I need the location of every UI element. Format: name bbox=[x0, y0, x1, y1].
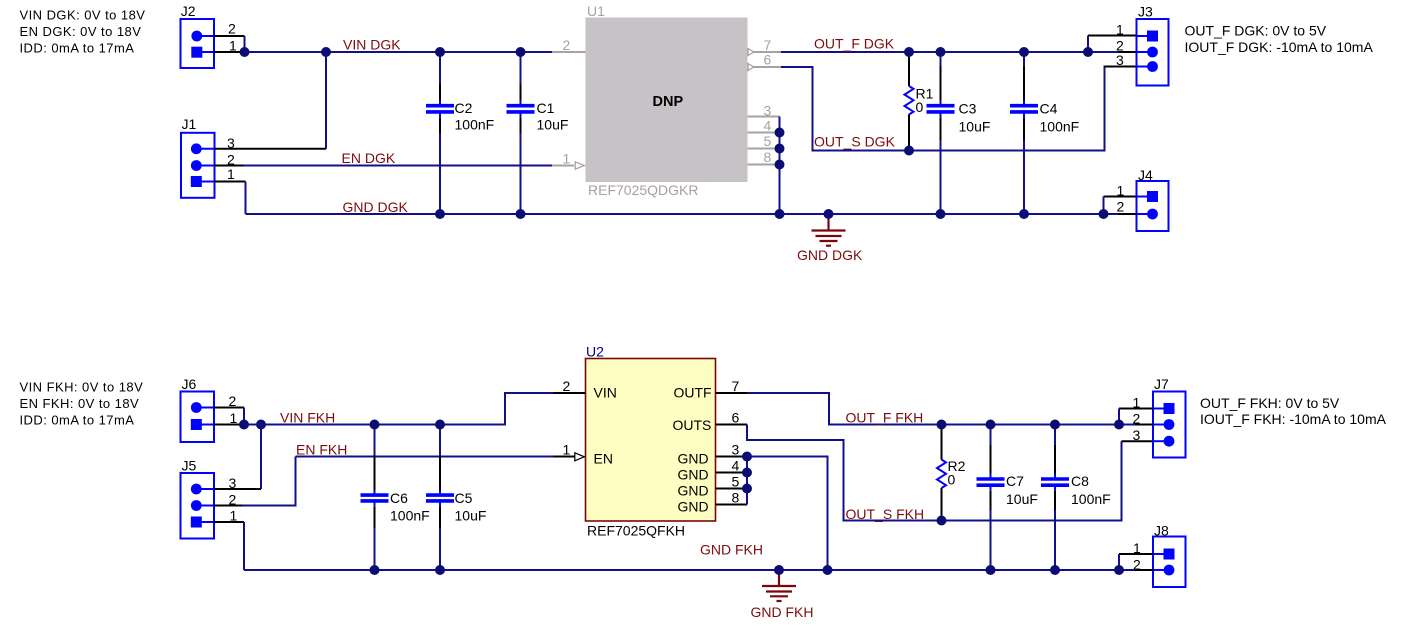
junction J8 pin1 on GND bbox=[1114, 565, 1124, 575]
svg-text:J1: J1 bbox=[182, 116, 197, 132]
svg-text:GND: GND bbox=[678, 467, 709, 483]
svg-text:C2: C2 bbox=[455, 100, 473, 116]
U2 pin 3 stub (GND) bbox=[716, 456, 748, 458]
capacitor C7 bbox=[977, 425, 1005, 571]
svg-text:VIN DGK: VIN DGK bbox=[343, 37, 401, 53]
annotation: VIN DGK ratings text bbox=[20, 7, 146, 55]
svg-text:EN DGK: 0V to 18V: EN DGK: 0V to 18V bbox=[20, 24, 142, 39]
wire OUTF to OUT_F FKH net bbox=[747, 393, 1153, 425]
junction U2 pin3 bbox=[742, 452, 752, 462]
svg-text:OUT_S DGK: OUT_S DGK bbox=[814, 134, 896, 150]
junction C7 top on OUT_F bbox=[986, 420, 996, 430]
svg-text:4: 4 bbox=[764, 118, 772, 134]
wire U2 gnd pins vertical bbox=[746, 457, 748, 505]
wire J5 pin2 to EN net bbox=[214, 505, 242, 507]
junction C6 bottom on GND bbox=[370, 565, 380, 575]
value label C6 bbox=[390, 490, 430, 524]
op-amp U2 REF7025QFKH (yellow body) bbox=[586, 343, 716, 538]
wire EN FKH net bbox=[296, 456, 554, 458]
value label C7 bbox=[1006, 473, 1038, 507]
svg-text:C3: C3 bbox=[959, 101, 977, 117]
junction C8 top on OUT_F bbox=[1050, 420, 1060, 430]
svg-text:6: 6 bbox=[732, 410, 740, 426]
U1 pin 5 stub bbox=[748, 148, 780, 150]
value label C3 bbox=[959, 101, 991, 135]
svg-text:7: 7 bbox=[732, 378, 740, 394]
svg-text:3: 3 bbox=[1133, 427, 1141, 443]
wire OUT_S DGK net from U1 pin6 bbox=[781, 67, 1121, 151]
junction C7 bottom on GND bbox=[986, 565, 996, 575]
wire J2 pin1 stub bbox=[214, 51, 245, 53]
junction U2 gnd riser on GND net bbox=[823, 565, 833, 575]
svg-text:J2: J2 bbox=[181, 3, 196, 19]
junction C4 top on OUT_F bbox=[1019, 47, 1029, 57]
svg-text:5: 5 bbox=[732, 474, 740, 490]
svg-text:GND: GND bbox=[678, 451, 709, 467]
svg-text:EN FKH: EN FKH bbox=[296, 441, 347, 457]
resistor R2 bbox=[937, 425, 946, 521]
svg-text:VIN FKH: VIN FKH bbox=[280, 409, 335, 425]
junction at J6 pin1 bbox=[239, 420, 249, 430]
annotation: VIN FKH ratings text bbox=[20, 380, 144, 428]
svg-text:2: 2 bbox=[1116, 37, 1124, 53]
svg-text:100nF: 100nF bbox=[455, 117, 495, 133]
wire J2 pin2 to VIN node bbox=[214, 35, 245, 37]
capacitor C8 bbox=[1041, 425, 1069, 571]
svg-text:GND FKH: GND FKH bbox=[751, 604, 814, 620]
wire J7 pin3 stub bbox=[1122, 440, 1154, 442]
value label R1 bbox=[916, 86, 934, 115]
resistor R1 bbox=[905, 52, 914, 151]
svg-text:3: 3 bbox=[1116, 52, 1124, 68]
wire OUT_F DGK net bbox=[781, 51, 1137, 53]
junction C5 bottom on GND bbox=[435, 565, 445, 575]
svg-text:REF7025QDGKR: REF7025QDGKR bbox=[588, 182, 698, 198]
junction C2 bottom on GND bbox=[435, 209, 445, 219]
svg-text:2: 2 bbox=[1117, 199, 1125, 215]
U1 pin 6 stub (OUT S) with chevron bbox=[748, 66, 782, 68]
junction U2 pin4 bbox=[742, 468, 752, 478]
svg-text:1: 1 bbox=[227, 166, 235, 182]
svg-text:OUT_F DGK: 0V to 5V: OUT_F DGK: 0V to 5V bbox=[1185, 23, 1327, 39]
wire GND DGK net horizontal bbox=[246, 213, 1137, 215]
junction J5 pin3 riser on VIN bbox=[256, 420, 266, 430]
U2 pin 6 stub (OUTS) bbox=[716, 424, 748, 426]
junction J7 pin1 on OUT_F bbox=[1114, 420, 1124, 430]
wire J3 pin2 stub bbox=[1118, 51, 1137, 53]
junction R2 top on OUT_F bbox=[937, 420, 947, 430]
svg-text:10uF: 10uF bbox=[959, 119, 991, 135]
U2 pin 8 stub (GND) bbox=[716, 504, 748, 506]
svg-text:IOUT_F DGK: -10mA to 10mA: IOUT_F DGK: -10mA to 10mA bbox=[1185, 39, 1374, 55]
wire J8 pin2 stub bbox=[1135, 569, 1153, 571]
wire J1 pin1 stub bbox=[215, 181, 246, 183]
svg-text:EN FKH: 0V to 18V: EN FKH: 0V to 18V bbox=[20, 396, 140, 411]
junction C5 top on VIN bbox=[435, 420, 445, 430]
svg-text:IDD: 0mA to 17mA: IDD: 0mA to 17mA bbox=[20, 413, 135, 428]
U2 pin 2 stub (VIN) bbox=[554, 392, 586, 394]
value label C8 bbox=[1071, 473, 1111, 507]
capacitor C6 bbox=[361, 425, 389, 571]
junction J3 pin1 on OUT_F bbox=[1083, 47, 1093, 57]
op-amp U1 (DNP reference, gray body) bbox=[586, 3, 748, 198]
U2 pin 4 stub (GND) bbox=[716, 472, 748, 474]
junction C3 bottom on GND bbox=[936, 209, 946, 219]
svg-text:VIN: VIN bbox=[594, 385, 617, 401]
junction ground on GND net bbox=[824, 209, 834, 219]
U1 pin 1 stub (EN) with chevron bbox=[552, 165, 574, 167]
svg-text:OUTS: OUTS bbox=[673, 417, 712, 433]
svg-text:5: 5 bbox=[764, 133, 772, 149]
U1 pin 4 stub bbox=[748, 132, 780, 134]
junction VIN / J1 pin3 branch bbox=[321, 47, 331, 57]
svg-text:IOUT_F FKH: -10mA to 10mA: IOUT_F FKH: -10mA to 10mA bbox=[1200, 411, 1387, 427]
svg-text:2: 2 bbox=[563, 378, 571, 394]
capacitor C4 bbox=[1010, 52, 1038, 214]
connector J5 bbox=[181, 458, 215, 539]
svg-text:OUT_F DGK: OUT_F DGK bbox=[814, 36, 895, 52]
junction U1 gnd vertical on GND net bbox=[775, 209, 785, 219]
wire J4 pin2 stub bbox=[1118, 213, 1137, 215]
wire OUTS to OUT_S FKH net bbox=[747, 425, 1122, 521]
U1 pin 3 stub bbox=[748, 116, 780, 118]
connector J7 bbox=[1153, 376, 1186, 458]
svg-text:J5: J5 bbox=[182, 458, 197, 474]
svg-text:10uF: 10uF bbox=[1006, 491, 1038, 507]
svg-text:OUT_F FKH: 0V to 5V: OUT_F FKH: 0V to 5V bbox=[1200, 395, 1340, 411]
connector J3 bbox=[1137, 4, 1169, 86]
junction C1 top on VIN bbox=[516, 47, 526, 57]
svg-text:10uF: 10uF bbox=[455, 508, 487, 524]
svg-text:0: 0 bbox=[916, 99, 924, 115]
wire J7 pin1 to OUT_F bbox=[1119, 408, 1153, 410]
svg-text:J7: J7 bbox=[1154, 376, 1169, 392]
wire J7 pin2 stub bbox=[1135, 424, 1153, 426]
junction ground on GND net bbox=[774, 565, 784, 575]
annotation: OUT_F FKH ratings text bbox=[1200, 395, 1387, 427]
wire J5 pin1 to GND net bbox=[214, 521, 244, 523]
svg-text:EN DGK: EN DGK bbox=[342, 150, 396, 166]
svg-text:1: 1 bbox=[563, 151, 571, 167]
svg-text:8: 8 bbox=[764, 149, 772, 165]
junction U1 pin4 bbox=[775, 128, 785, 138]
svg-text:C6: C6 bbox=[390, 490, 408, 506]
wire J3 pin3 stub bbox=[1105, 66, 1137, 68]
svg-text:J6: J6 bbox=[182, 376, 197, 392]
capacitor C2 bbox=[426, 52, 454, 214]
ground symbol GND FKH bbox=[762, 570, 796, 601]
wire VIN DGK net horizontal bbox=[245, 51, 553, 53]
junction U1 pin5 bbox=[775, 144, 785, 154]
junction C4 bottom on GND bbox=[1019, 209, 1029, 219]
svg-text:EN: EN bbox=[594, 451, 613, 467]
svg-text:10uF: 10uF bbox=[537, 117, 569, 133]
svg-text:3: 3 bbox=[732, 442, 740, 458]
value label R2 bbox=[948, 458, 966, 487]
connector J8 bbox=[1153, 523, 1186, 588]
svg-text:DNP: DNP bbox=[653, 94, 684, 110]
wire J6 pin1 stub bbox=[214, 424, 244, 426]
svg-text:C8: C8 bbox=[1071, 473, 1089, 489]
connector J4 bbox=[1137, 167, 1169, 231]
svg-text:2: 2 bbox=[563, 37, 571, 53]
svg-text:OUT_S FKH: OUT_S FKH bbox=[846, 506, 925, 522]
value label C4 bbox=[1040, 101, 1080, 135]
svg-text:VIN DGK: 0V to 18V: VIN DGK: 0V to 18V bbox=[20, 7, 146, 22]
connector J2 bbox=[181, 3, 215, 68]
svg-text:100nF: 100nF bbox=[1071, 491, 1111, 507]
wire U2 gnd to GND net bbox=[747, 457, 828, 571]
wire J1 pin3 stub bbox=[215, 148, 327, 150]
junction C8 bottom on GND bbox=[1050, 565, 1060, 575]
svg-text:VIN FKH: 0V to 18V: VIN FKH: 0V to 18V bbox=[20, 380, 144, 395]
U1 pin 2 stub (VIN) bbox=[552, 51, 586, 53]
svg-text:100nF: 100nF bbox=[1040, 119, 1080, 135]
wire J5 pin3 to VIN net bbox=[214, 488, 261, 490]
value label C5 bbox=[455, 490, 487, 524]
wire J3 pin1 to OUT_F bbox=[1088, 35, 1137, 37]
svg-text:GND: GND bbox=[678, 499, 709, 515]
svg-text:6: 6 bbox=[764, 52, 772, 68]
svg-text:GND DGK: GND DGK bbox=[797, 247, 863, 263]
value label C1 bbox=[537, 100, 569, 133]
capacitor C5 bbox=[426, 425, 454, 571]
value label C2 bbox=[455, 100, 495, 133]
junction R1 top on OUT_F bbox=[904, 47, 914, 57]
junction C1 bottom on GND bbox=[516, 209, 526, 219]
junction U1 pin8 bbox=[775, 160, 785, 170]
svg-text:IDD: 0mA to 17mA: IDD: 0mA to 17mA bbox=[20, 40, 135, 55]
wire GND FKH net horizontal bbox=[244, 569, 1153, 571]
junction R1 bottom on OUT_S bbox=[904, 146, 914, 156]
svg-text:U2: U2 bbox=[586, 343, 604, 359]
svg-text:J4: J4 bbox=[1138, 167, 1153, 183]
svg-text:4: 4 bbox=[732, 458, 740, 474]
wire J8 pin1 to GND bbox=[1119, 553, 1153, 555]
wire U1 gnd pins vertical to GND net bbox=[779, 117, 781, 215]
svg-text:3: 3 bbox=[764, 103, 772, 119]
svg-text:8: 8 bbox=[732, 490, 740, 506]
U1 pin 7 stub (OUT F) with chevron bbox=[748, 51, 782, 53]
svg-text:C1: C1 bbox=[537, 100, 555, 116]
wire J1 pin1 down to GND net bbox=[245, 182, 247, 215]
U2 pin 5 stub (GND) bbox=[716, 488, 748, 490]
connector J1 bbox=[181, 116, 215, 198]
svg-text:0: 0 bbox=[948, 472, 956, 488]
svg-text:J8: J8 bbox=[1154, 523, 1169, 539]
svg-text:1: 1 bbox=[563, 442, 571, 458]
U2 pin 1 stub (EN) with chevron bbox=[575, 453, 585, 461]
U2 pin 7 stub (OUTF) bbox=[716, 392, 748, 394]
junction R2 bottom on OUT_S bbox=[937, 516, 947, 526]
junction C6 top on VIN bbox=[370, 420, 380, 430]
svg-text:C7: C7 bbox=[1006, 473, 1024, 489]
svg-text:C4: C4 bbox=[1040, 101, 1058, 117]
junction at J2 pin1 bbox=[240, 47, 250, 57]
ground symbol GND DGK bbox=[812, 214, 846, 246]
svg-text:J3: J3 bbox=[1138, 4, 1153, 20]
svg-text:GND FKH: GND FKH bbox=[700, 542, 763, 558]
svg-text:GND: GND bbox=[678, 483, 709, 499]
capacitor C3 bbox=[927, 52, 955, 214]
svg-text:REF7025QFKH: REF7025QFKH bbox=[587, 522, 685, 538]
svg-text:OUTF: OUTF bbox=[674, 385, 712, 401]
capacitor C1 bbox=[507, 52, 535, 214]
wire EN DGK net bbox=[244, 165, 553, 167]
svg-text:2: 2 bbox=[228, 21, 236, 37]
annotation: OUT_F DGK ratings text bbox=[1185, 23, 1374, 55]
svg-text:GND DGK: GND DGK bbox=[343, 199, 409, 215]
junction J4 pin1 on GND bbox=[1099, 209, 1109, 219]
junction C3 top on OUT_F bbox=[936, 47, 946, 57]
wire J6 pin2 to VIN node bbox=[214, 407, 244, 409]
svg-text:OUT_F FKH: OUT_F FKH bbox=[846, 409, 924, 425]
wire J1 pin2 stub bbox=[215, 165, 244, 167]
svg-text:U1: U1 bbox=[587, 3, 605, 19]
svg-text:100nF: 100nF bbox=[390, 508, 430, 524]
wire VIN FKH net bbox=[244, 393, 554, 425]
junction C2 top on VIN bbox=[435, 47, 445, 57]
wire J4 pin1 to GND bbox=[1104, 196, 1137, 198]
U1 pin 8 stub bbox=[748, 164, 780, 166]
junction U2 pin5 bbox=[742, 484, 752, 494]
wire VIN down to J1 pin3 bbox=[325, 52, 327, 149]
svg-text:C5: C5 bbox=[455, 490, 473, 506]
connector J6 bbox=[181, 376, 215, 442]
